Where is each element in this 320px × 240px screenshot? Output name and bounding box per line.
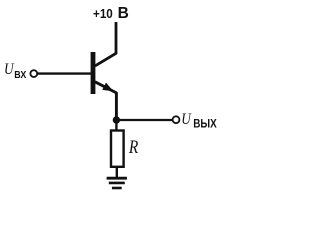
wire: node to output terminal <box>116 119 172 121</box>
svg-text:+10: +10 <box>93 6 113 21</box>
svg-text:U: U <box>4 61 15 78</box>
transistor VT1 emitter wire with arrow <box>95 82 116 120</box>
transistor VT1 base bar <box>91 52 96 94</box>
svg-text:В: В <box>118 5 129 22</box>
wire: +10 V rail to collector <box>95 22 116 66</box>
wire: node to resistor top <box>115 120 117 131</box>
ground symbol <box>107 177 127 180</box>
input terminal circle <box>30 70 37 77</box>
emitter arrowhead <box>102 83 113 92</box>
resistor R body <box>111 131 124 167</box>
svg-text:R: R <box>128 137 139 158</box>
output terminal circle <box>173 116 180 123</box>
junction node (emitter / output / resistor) <box>113 116 120 123</box>
svg-text:ВЫХ: ВЫХ <box>193 117 217 131</box>
svg-text:U: U <box>181 111 192 128</box>
wire: resistor bottom to ground <box>116 167 118 178</box>
wire: input terminal to base <box>37 72 90 74</box>
svg-text:ВХ: ВХ <box>14 69 26 81</box>
